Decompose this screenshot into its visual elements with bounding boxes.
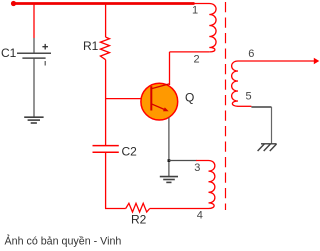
inductor winding pins 5-6 (secondary): [232, 61, 238, 106]
ground (emitter): [160, 177, 178, 183]
ground (C1): [24, 117, 43, 123]
polarity + mark of C1: [42, 44, 48, 50]
inductor winding pins 3-4 (primary bottom): [150, 161, 215, 209]
wire: collector horizontal to winding pin 2: [170, 51, 210, 53]
svg-text:5: 5: [246, 90, 252, 102]
svg-text:4: 4: [197, 210, 203, 222]
wire: C2 bottom lead vertical: [105, 152, 107, 208]
wire: C1 top lead (gray part): [33, 38, 35, 53]
ground (earth, secondary): [258, 144, 277, 151]
node dot (top-left supply node): [11, 1, 16, 6]
transformer core (dashed line): [225, 2, 227, 210]
inductor winding pins 1-2 (primary top): [194, 4, 216, 52]
wire: top V+ bus (thick red): [13, 2, 195, 5]
svg-text:2: 2: [194, 54, 200, 66]
svg-text:1: 1: [192, 4, 198, 16]
transistor Q: [141, 83, 178, 120]
polarity - mark of C1: [44, 61, 46, 66]
wire: C1 bottom lead to ground: [33, 58, 35, 117]
node: emitter junction dot: [168, 159, 171, 162]
svg-text:R1: R1: [83, 39, 99, 53]
svg-text:C2: C2: [122, 144, 138, 158]
wire: emitter junction to winding pin 3: [169, 160, 197, 162]
wire: pin 5 lead (black part): [251, 106, 271, 108]
wire: R1 bottom lead down to C2 (passes base node): [105, 60, 107, 145]
wire: base lead to Q: [106, 98, 141, 100]
wire: C1 top lead (red part): [33, 4, 35, 39]
svg-text:Q: Q: [185, 91, 194, 105]
capacitor C2: [93, 146, 119, 153]
wire: output 6 horizontal: [238, 60, 315, 62]
svg-text:R2: R2: [131, 213, 147, 227]
wire: emitter vertical (gray): [168, 118, 170, 177]
svg-text:Ảnh có bản quyền - Vinh: Ảnh có bản quyền - Vinh: [5, 235, 122, 248]
wire: bottom horizontal C2 to R2: [105, 208, 126, 210]
wire: collector vertical: [169, 52, 171, 85]
wire: secondary ground vertical: [271, 107, 273, 144]
resistor R2: [126, 203, 150, 212]
resistor R1: [100, 4, 109, 60]
svg-text:3: 3: [194, 162, 200, 174]
svg-text:6: 6: [248, 48, 254, 60]
svg-text:C1: C1: [1, 46, 17, 60]
wire: pin 5 lead (red part): [238, 105, 251, 107]
arrowhead (output 6): [314, 58, 320, 64]
capacitor C1 (polarized): [17, 53, 51, 58]
